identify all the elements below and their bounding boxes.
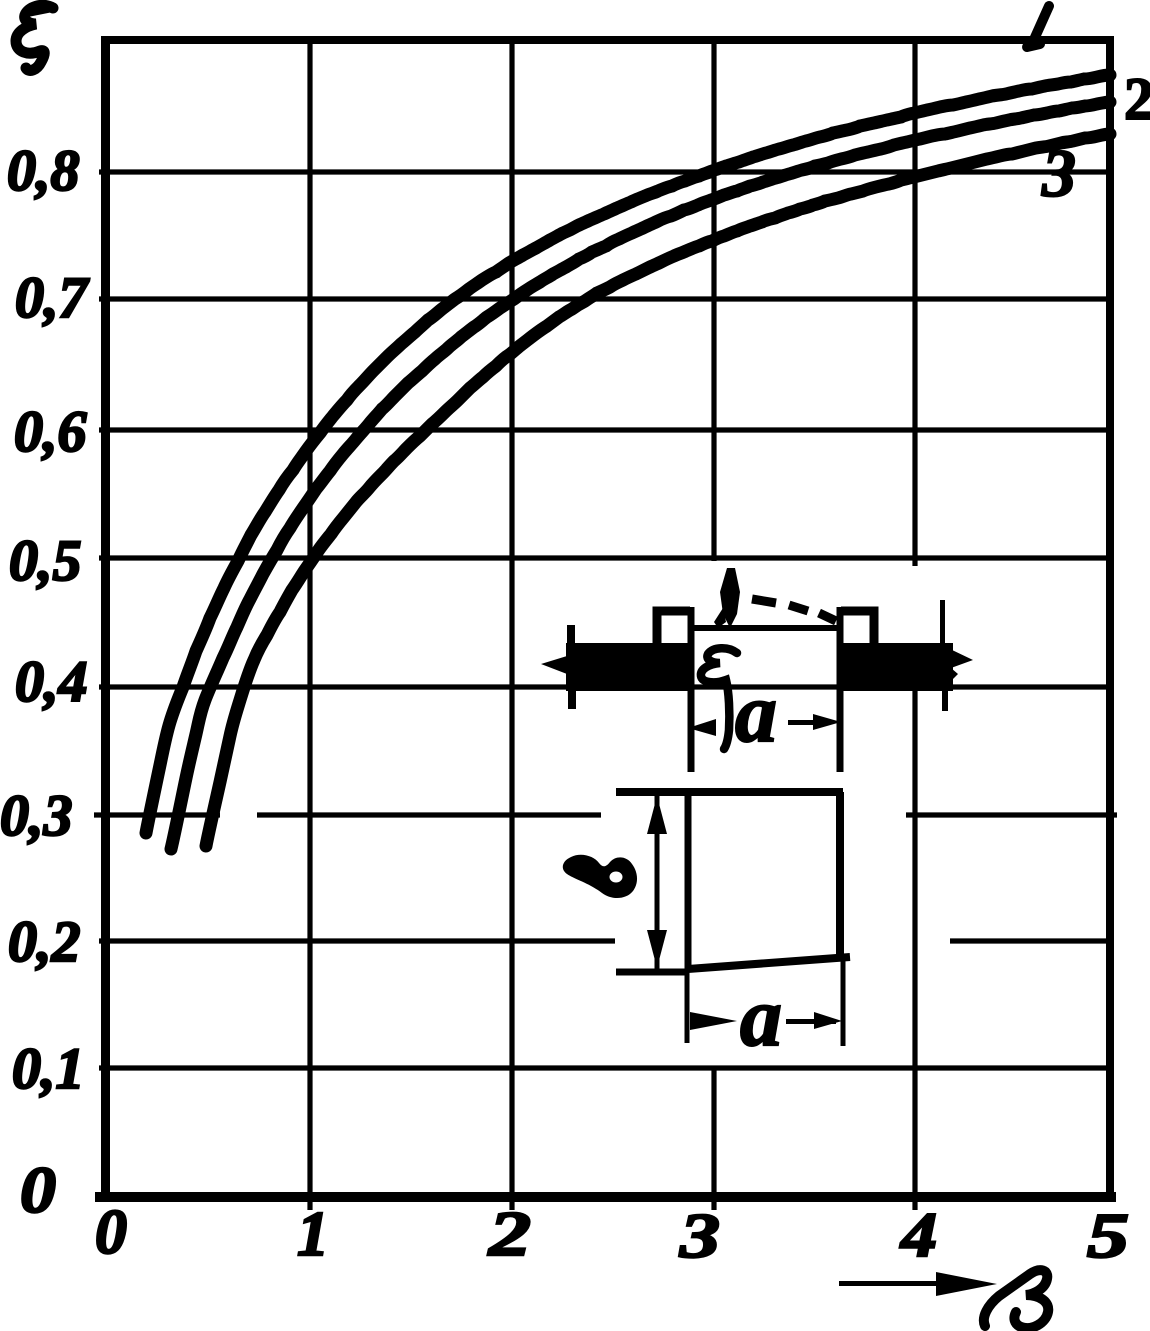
svg-text:0,4: 0,4 bbox=[15, 649, 88, 714]
left lip bbox=[657, 611, 690, 646]
svg-text:0,6: 0,6 bbox=[14, 399, 87, 464]
b arrow down bbox=[647, 930, 667, 968]
rect bottom edge (slanted) bbox=[688, 957, 850, 969]
grid horizontal 0.6 bbox=[99, 427, 1113, 432]
central down arrow bbox=[720, 568, 740, 628]
right lip bbox=[841, 611, 874, 646]
grid horizontal 0.3 left bbox=[94, 812, 220, 817]
left wall serif top bbox=[567, 625, 575, 645]
top inset dimension a bbox=[688, 714, 841, 736]
right wall bar bbox=[841, 643, 953, 691]
grid vertical beta=4 upper bbox=[912, 40, 917, 566]
grid vertical beta=4 lower bbox=[912, 691, 917, 1210]
grid horizontal 0.5 bbox=[99, 555, 1113, 560]
y labels bbox=[0, 138, 90, 1227]
grid vertical beta=3 lower bbox=[711, 1066, 716, 1210]
gap letter (small zeta/s) bbox=[701, 648, 737, 749]
grid horizontal 0.4 bbox=[99, 684, 1113, 689]
grid horizontal 0.2 right bbox=[950, 938, 1113, 943]
svg-text:0,5: 0,5 bbox=[9, 528, 82, 593]
border right bbox=[1106, 36, 1114, 1202]
svg-text:3: 3 bbox=[679, 1200, 720, 1271]
svg-text:2: 2 bbox=[488, 1198, 531, 1269]
beta symbol bbox=[984, 1270, 1048, 1328]
svg-text:0,7: 0,7 bbox=[15, 265, 90, 330]
svg-text:0,2: 0,2 bbox=[8, 909, 81, 974]
right wall serif bottom bbox=[942, 691, 948, 711]
svg-text:2: 2 bbox=[1124, 66, 1150, 132]
zeta axis symbol bbox=[16, 5, 53, 70]
left wall bar bbox=[566, 643, 690, 691]
grid horizontal 0.3 right bbox=[906, 812, 1117, 817]
rect right edge bbox=[836, 792, 844, 961]
svg-text:3: 3 bbox=[1041, 135, 1076, 211]
svg-text:0,1: 0,1 bbox=[12, 1036, 85, 1101]
grid vertical beta=1 bbox=[307, 40, 312, 1210]
b arrow up bbox=[647, 796, 667, 834]
svg-text:a: a bbox=[735, 667, 777, 760]
rect top edge + b top extension bbox=[616, 788, 843, 796]
b dimension line bbox=[655, 795, 660, 970]
grid horizontal 0.8 bbox=[99, 169, 1113, 174]
letter b (cyrillic be, handwritten) bbox=[563, 855, 637, 898]
b bottom extension bbox=[616, 969, 689, 976]
curve 1 bbox=[146, 75, 1110, 833]
right wall serif top bbox=[940, 600, 945, 646]
grid horizontal 0.7 bbox=[99, 296, 1113, 301]
x labels bbox=[95, 1196, 1129, 1271]
left wall tip bbox=[541, 656, 567, 674]
border top bbox=[101, 36, 1114, 44]
beta axis arrow bbox=[839, 1272, 997, 1296]
grid horizontal 0.3 mid bbox=[257, 812, 601, 817]
svg-text:0,8: 0,8 bbox=[7, 138, 80, 203]
curve 3 bbox=[206, 134, 1110, 846]
svg-text:1: 1 bbox=[297, 1198, 329, 1269]
curve 2 bbox=[171, 102, 1110, 849]
right wall tip bbox=[950, 649, 973, 682]
grid horizontal 0.1 bbox=[99, 1065, 1113, 1070]
svg-text:0,3: 0,3 bbox=[0, 783, 73, 848]
grid vertical beta=3 upper bbox=[711, 40, 716, 561]
rect left edge bbox=[685, 792, 692, 970]
slot left face + extension bbox=[688, 607, 695, 772]
left wall serif bottom bbox=[568, 689, 576, 709]
slot right face + extension bbox=[837, 607, 844, 772]
svg-text:5: 5 bbox=[1087, 1200, 1129, 1271]
slot top line bbox=[691, 625, 840, 631]
dashed trajectory arc bbox=[752, 599, 836, 621]
svg-text:4: 4 bbox=[900, 1199, 937, 1270]
border bottom bbox=[95, 1192, 1116, 1202]
svg-text:0: 0 bbox=[95, 1196, 127, 1267]
curve label 1 bbox=[1027, 6, 1049, 47]
svg-text:0: 0 bbox=[20, 1154, 56, 1227]
grid vertical beta=2 bbox=[509, 40, 514, 1210]
border left bbox=[101, 36, 110, 1202]
grid horizontal 0.2 left bbox=[99, 938, 615, 943]
svg-text:a: a bbox=[740, 971, 782, 1064]
bottom dimension a extensions bbox=[687, 961, 843, 1046]
bottom dimension a arrows bbox=[690, 1012, 842, 1030]
